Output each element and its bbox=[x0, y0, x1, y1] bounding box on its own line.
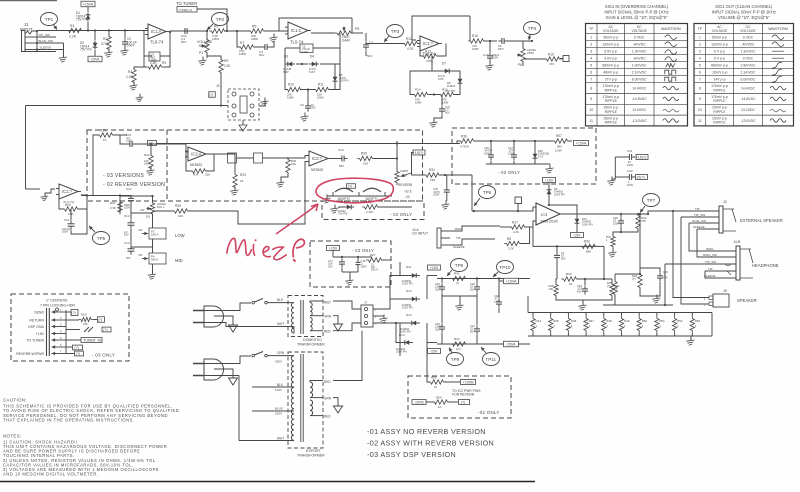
svg-text:1/8W: 1/8W bbox=[212, 37, 219, 41]
svg-text:+15V: +15V bbox=[36, 332, 45, 336]
svg-text:1" CENTERS: 1" CENTERS bbox=[46, 299, 68, 303]
svg-text:3: 3 bbox=[590, 50, 592, 54]
svg-text:TIP: TIP bbox=[695, 207, 700, 211]
svg-text:R41: R41 bbox=[454, 272, 460, 276]
svg-text:+15V: +15V bbox=[545, 178, 554, 182]
svg-text:4T8: 4T8 bbox=[641, 219, 646, 223]
svg-text:TIP: TIP bbox=[708, 267, 713, 271]
svg-text:+15VB: +15VB bbox=[463, 380, 474, 384]
svg-text:100V: 100V bbox=[627, 163, 633, 167]
svg-text:SIG1 OUT (CLEAN CHANNEL): SIG1 OUT (CLEAN CHANNEL) bbox=[715, 4, 773, 9]
svg-text:50V: 50V bbox=[259, 53, 264, 57]
svg-text:46mV p-p: 46mV p-p bbox=[603, 71, 618, 75]
svg-text:R5: R5 bbox=[214, 25, 218, 29]
svg-text:10: 10 bbox=[438, 405, 442, 409]
svg-text:R33: R33 bbox=[566, 272, 572, 276]
svg-text:TP3: TP3 bbox=[391, 29, 400, 34]
svg-text:NOTES:: NOTES: bbox=[3, 434, 22, 439]
svg-text:75V PIV: 75V PIV bbox=[80, 48, 93, 52]
svg-text:35V: 35V bbox=[311, 106, 316, 110]
svg-text:6: 6 bbox=[590, 71, 592, 75]
svg-text:4.0V p-p: 4.0V p-p bbox=[604, 57, 617, 61]
svg-text:R54: R54 bbox=[436, 396, 442, 400]
svg-text:(?): (?) bbox=[74, 346, 78, 350]
svg-text:IC2:?: IC2:? bbox=[312, 156, 323, 161]
svg-text:2: 2 bbox=[590, 43, 592, 47]
svg-text:(?): (?) bbox=[71, 311, 75, 315]
svg-text:2.2K: 2.2K bbox=[508, 247, 514, 251]
svg-text:TUNER_IN: TUNER_IN bbox=[179, 8, 192, 12]
svg-text:1(?): 1(?) bbox=[456, 347, 461, 351]
svg-text:IC1:?: IC1:? bbox=[423, 41, 434, 46]
svg-text:110V: 110V bbox=[275, 388, 282, 392]
svg-text:R6: R6 bbox=[507, 237, 511, 241]
svg-text:J4-B: J4-B bbox=[733, 240, 741, 244]
svg-text:250K: 250K bbox=[527, 51, 534, 55]
svg-text:(?): (?) bbox=[461, 400, 465, 404]
svg-text:GAIN & LEVEL @ "10", EQ's@"5": GAIN & LEVEL @ "10", EQ's@"5" bbox=[606, 15, 668, 20]
svg-text:16: 16 bbox=[240, 179, 244, 183]
svg-text:EXPORT: EXPORT bbox=[306, 449, 322, 453]
svg-text:LOW: LOW bbox=[175, 233, 185, 238]
svg-text:-01 ASSY NO REVERB VERSION: -01 ASSY NO REVERB VERSION bbox=[367, 427, 486, 436]
svg-text:RIPPLE: RIPPLE bbox=[713, 99, 726, 103]
svg-text:50V: 50V bbox=[561, 256, 566, 260]
svg-text:VOLTAGE: VOLTAGE bbox=[740, 29, 756, 33]
svg-text:R42: R42 bbox=[454, 337, 460, 341]
svg-text:1.5K: 1.5K bbox=[126, 75, 134, 79]
svg-text:RED: RED bbox=[324, 415, 331, 419]
svg-text:FOR REVERB: FOR REVERB bbox=[452, 393, 475, 397]
svg-text:TIP: TIP bbox=[456, 236, 461, 240]
svg-text:1N914: 1N914 bbox=[447, 84, 456, 88]
svg-text:1K: 1K bbox=[103, 138, 107, 142]
svg-text:HEADPHONE: HEADPHONE bbox=[752, 263, 779, 268]
svg-text:200V: 200V bbox=[127, 44, 135, 48]
svg-text:C14: C14 bbox=[124, 241, 130, 245]
svg-text:R24: R24 bbox=[193, 173, 199, 177]
svg-text:REVERB W/PWR: REVERB W/PWR bbox=[16, 352, 44, 356]
svg-text:TO TUNER: TO TUNER bbox=[26, 339, 44, 343]
svg-text:100V PIV: 100V PIV bbox=[554, 192, 565, 196]
svg-text:1/8W: 1/8W bbox=[415, 100, 422, 104]
svg-text:CW: CW bbox=[140, 208, 145, 212]
svg-text:R25: R25 bbox=[100, 129, 106, 133]
svg-text:5: 5 bbox=[699, 64, 701, 68]
svg-text:100V: 100V bbox=[361, 264, 367, 268]
svg-text:SLEEVE: SLEEVE bbox=[40, 46, 52, 50]
svg-text:VOLTAGE: VOLTAGE bbox=[712, 29, 728, 33]
svg-text:TP9: TP9 bbox=[451, 357, 460, 362]
svg-text:4.7K: 4.7K bbox=[407, 47, 414, 51]
svg-text:- 03 ONLY: - 03 ONLY bbox=[390, 212, 412, 217]
svg-text:25V: 25V bbox=[328, 264, 333, 268]
svg-text:INPUT SIGNAL 50mV P-P @ 1KHz: INPUT SIGNAL 50mV P-P @ 1KHz bbox=[712, 10, 776, 15]
svg-text:100V: 100V bbox=[275, 412, 282, 416]
svg-text:14V p-p: 14V p-p bbox=[713, 78, 725, 82]
svg-text:TO TUNER: TO TUNER bbox=[176, 1, 197, 6]
svg-text:6.8V: 6.8V bbox=[438, 77, 444, 81]
svg-text:SEND: SEND bbox=[34, 311, 44, 315]
svg-text:RING_SW: RING_SW bbox=[703, 253, 717, 257]
svg-text:230V: 230V bbox=[275, 360, 282, 364]
svg-text:R12: R12 bbox=[406, 37, 412, 41]
svg-text:R15: R15 bbox=[442, 88, 448, 92]
svg-text:4: 4 bbox=[590, 57, 592, 61]
svg-text:R52: R52 bbox=[677, 319, 683, 323]
svg-text:J3: J3 bbox=[216, 84, 220, 88]
svg-text:+15(?): +15(?) bbox=[413, 151, 424, 155]
svg-text:50mV p-p: 50mV p-p bbox=[603, 36, 618, 40]
svg-text:75V PIV: 75V PIV bbox=[76, 18, 89, 22]
svg-text:CW: CW bbox=[138, 253, 143, 257]
svg-text:C10: C10 bbox=[483, 53, 489, 57]
svg-text:NPV: NPV bbox=[498, 47, 504, 51]
svg-text:RIPPLE: RIPPLE bbox=[605, 121, 618, 125]
svg-text:75V PIV: 75V PIV bbox=[338, 212, 348, 216]
svg-text:13.0VDC: 13.0VDC bbox=[632, 108, 646, 112]
svg-text:R10: R10 bbox=[288, 83, 294, 87]
svg-text:1: 1 bbox=[699, 36, 701, 40]
svg-text:R53: R53 bbox=[695, 319, 701, 323]
svg-text:RETURN: RETURN bbox=[29, 319, 44, 323]
svg-text:120mV p-p: 120mV p-p bbox=[711, 43, 728, 47]
svg-text:R36: R36 bbox=[461, 135, 467, 139]
svg-text:BLUE: BLUE bbox=[275, 407, 283, 411]
svg-text:R51: R51 bbox=[659, 319, 665, 323]
svg-text:J2: J2 bbox=[723, 200, 727, 204]
svg-text:TP7: TP7 bbox=[647, 198, 656, 203]
svg-text:1/8W: 1/8W bbox=[317, 95, 324, 99]
svg-text:2.2K: 2.2K bbox=[69, 35, 77, 39]
svg-text:R9: R9 bbox=[224, 59, 228, 63]
svg-text:- 02 REVERB VERSION: - 02 REVERB VERSION bbox=[103, 182, 165, 188]
svg-text:TUNER_IN: TUNER_IN bbox=[83, 338, 101, 342]
svg-text:R50: R50 bbox=[642, 319, 648, 323]
svg-text:1: 1 bbox=[590, 36, 592, 40]
svg-text:150 PIV: 150 PIV bbox=[339, 79, 349, 83]
svg-text:10K: 10K bbox=[178, 214, 183, 218]
svg-text:100V: 100V bbox=[126, 139, 133, 143]
svg-text:P2: P2 bbox=[146, 215, 150, 219]
svg-text:-15V: -15V bbox=[573, 233, 581, 237]
svg-text:9: 9 bbox=[699, 97, 701, 101]
svg-text:SPEAKER: SPEAKER bbox=[737, 298, 757, 303]
svg-text:TP1: TP1 bbox=[45, 17, 54, 22]
svg-text:TP5: TP5 bbox=[97, 236, 106, 241]
svg-text:RED: RED bbox=[324, 330, 331, 334]
svg-text:(?): (?) bbox=[632, 277, 635, 281]
svg-text:6.5V p-p: 6.5V p-p bbox=[604, 50, 617, 54]
svg-text:R57: R57 bbox=[556, 134, 562, 138]
svg-text:TP11: TP11 bbox=[485, 357, 496, 362]
svg-text:BLUE_SW: BLUE_SW bbox=[39, 39, 54, 43]
svg-text:R6: R6 bbox=[252, 25, 256, 29]
svg-text:14.4VDC: 14.4VDC bbox=[741, 86, 755, 90]
svg-text:D11: D11 bbox=[406, 265, 412, 269]
svg-text:100V PIV: 100V PIV bbox=[402, 282, 413, 286]
svg-text:+15V: +15V bbox=[430, 266, 439, 270]
svg-text:GAIN: GAIN bbox=[342, 38, 350, 42]
svg-text:R32: R32 bbox=[584, 240, 590, 244]
svg-text:RIPPLE: RIPPLE bbox=[605, 99, 618, 103]
svg-text:22K: 22K bbox=[205, 173, 210, 177]
svg-text:SLVE_SW: SLVE_SW bbox=[692, 219, 706, 223]
svg-text:CWRT: CWRT bbox=[400, 169, 409, 173]
svg-text:R21: R21 bbox=[110, 201, 116, 205]
svg-text:WHT: WHT bbox=[277, 322, 284, 326]
svg-text:+15VA: +15VA bbox=[83, 2, 94, 6]
svg-text:5.1V: 5.1V bbox=[538, 154, 544, 158]
svg-text:-14.8VDC: -14.8VDC bbox=[632, 97, 648, 101]
svg-text:D7: D7 bbox=[442, 62, 446, 66]
svg-text:120mV p-p: 120mV p-p bbox=[602, 43, 619, 47]
svg-text:RIPPLE: RIPPLE bbox=[713, 110, 726, 114]
svg-text:100V PIV: 100V PIV bbox=[396, 350, 407, 354]
svg-text:TIP_SW: TIP_SW bbox=[694, 213, 705, 217]
svg-text:6: 6 bbox=[699, 71, 701, 75]
svg-text:R2: R2 bbox=[103, 37, 107, 41]
svg-text:P6: P6 bbox=[518, 63, 522, 67]
svg-text:-15V: -15V bbox=[430, 349, 438, 353]
svg-text:GRN: GRN bbox=[277, 351, 285, 355]
svg-text:R46: R46 bbox=[571, 319, 577, 323]
svg-text:BLK: BLK bbox=[277, 383, 284, 387]
svg-text:3: 3 bbox=[699, 50, 701, 54]
svg-text:J5: J5 bbox=[723, 289, 727, 293]
svg-text:8: 8 bbox=[699, 86, 701, 90]
svg-text:+15(?): +15(?) bbox=[636, 155, 647, 159]
svg-text:R22: R22 bbox=[144, 153, 150, 157]
svg-text:WAVEFORM: WAVEFORM bbox=[768, 27, 788, 31]
svg-text:SIG1 IN (OVERDRIVE CHANNEL): SIG1 IN (OVERDRIVE CHANNEL) bbox=[605, 4, 669, 9]
svg-text:68K: 68K bbox=[586, 250, 591, 254]
svg-text:VOLUME @ "10", EQ's@"5": VOLUME @ "10", EQ's@"5" bbox=[718, 15, 770, 20]
svg-text:DSP GND: DSP GND bbox=[28, 325, 44, 329]
svg-text:50K A: 50K A bbox=[199, 44, 209, 48]
svg-text:50V: 50V bbox=[445, 110, 450, 114]
svg-text:TP: TP bbox=[698, 27, 703, 31]
svg-text:2.2K: 2.2K bbox=[513, 230, 519, 234]
svg-text:-14.8VDC: -14.8VDC bbox=[740, 97, 756, 101]
svg-text:IC2:A: IC2:A bbox=[191, 152, 202, 157]
svg-text:C12: C12 bbox=[126, 187, 132, 191]
svg-text:3.3V: 3.3V bbox=[283, 70, 289, 74]
svg-text:1/8W: 1/8W bbox=[472, 47, 479, 51]
svg-text:-15(?): -15(?) bbox=[635, 175, 645, 179]
svg-text:R44: R44 bbox=[536, 319, 542, 323]
svg-text:C22: C22 bbox=[627, 169, 633, 173]
svg-text:IC1:?: IC1:? bbox=[62, 189, 73, 194]
svg-text:-15VA: -15VA bbox=[90, 57, 100, 61]
svg-text:2.1mVDC: 2.1mVDC bbox=[741, 71, 756, 75]
svg-text:-13.0VDC: -13.0VDC bbox=[740, 119, 756, 123]
svg-text:INPUT SIGNAL 50mV P-P @ 1KHz: INPUT SIGNAL 50mV P-P @ 1KHz bbox=[604, 10, 668, 15]
svg-text:P5: P5 bbox=[355, 27, 359, 31]
svg-text:VOLTAGE: VOLTAGE bbox=[603, 29, 619, 33]
svg-text:RED: RED bbox=[324, 301, 331, 305]
svg-text:R47: R47 bbox=[589, 319, 595, 323]
svg-text:0 V p-p: 0 V p-p bbox=[714, 50, 725, 54]
svg-text:10: 10 bbox=[589, 108, 593, 112]
svg-text:SLEEVE: SLEEVE bbox=[453, 245, 465, 249]
svg-text:- 03: - 03 bbox=[404, 195, 410, 199]
svg-text:VOLTAGE: VOLTAGE bbox=[631, 29, 647, 33]
svg-text:BLK: BLK bbox=[277, 298, 284, 302]
svg-text:(?): (?) bbox=[76, 352, 80, 356]
svg-text:10K: 10K bbox=[83, 322, 88, 326]
svg-text:1/8W: 1/8W bbox=[251, 37, 258, 41]
svg-text:TL0-74: TL0-74 bbox=[150, 40, 164, 45]
svg-text:1/8W: 1/8W bbox=[442, 100, 449, 104]
svg-text:.20mV p-p: .20mV p-p bbox=[712, 71, 728, 75]
svg-text:R45: R45 bbox=[553, 319, 559, 323]
svg-text:D12: D12 bbox=[406, 289, 412, 293]
svg-text:9: 9 bbox=[590, 97, 592, 101]
svg-text:RIPPLE: RIPPLE bbox=[605, 88, 618, 92]
svg-text:TRANSFORMER: TRANSFORMER bbox=[297, 454, 325, 458]
svg-text:6.0mVDC: 6.0mVDC bbox=[741, 78, 756, 82]
svg-text:R23: R23 bbox=[240, 173, 246, 177]
svg-text:(?): (?) bbox=[456, 281, 459, 285]
svg-text:100V: 100V bbox=[508, 151, 514, 155]
svg-text:EXTERNAL SPEAKER: EXTERNAL SPEAKER bbox=[740, 218, 783, 223]
svg-text:GRN: GRN bbox=[324, 397, 332, 401]
svg-text:C19: C19 bbox=[338, 148, 344, 152]
svg-text:R4: R4 bbox=[128, 70, 132, 74]
svg-text:TP10: TP10 bbox=[499, 265, 510, 270]
svg-text:2.2K: 2.2K bbox=[224, 64, 231, 68]
svg-text:R1: R1 bbox=[70, 24, 75, 28]
svg-text:63V: 63V bbox=[577, 289, 582, 293]
svg-text:R27: R27 bbox=[370, 253, 376, 257]
svg-text:RIPPLE: RIPPLE bbox=[713, 121, 726, 125]
svg-text:R20: R20 bbox=[65, 203, 71, 207]
svg-text:2.1mVDC: 2.1mVDC bbox=[632, 71, 647, 75]
svg-text:5: 5 bbox=[590, 64, 592, 68]
svg-text:R14: R14 bbox=[415, 88, 421, 92]
svg-text:-13.0VDC: -13.0VDC bbox=[632, 119, 648, 123]
svg-text:50V: 50V bbox=[181, 40, 186, 44]
svg-text:IC1:C: IC1:C bbox=[291, 28, 302, 33]
svg-text:2.21K: 2.21K bbox=[366, 210, 373, 214]
svg-text:1K: 1K bbox=[569, 282, 573, 286]
svg-text:11: 11 bbox=[589, 119, 593, 123]
svg-text:IC1:A: IC1:A bbox=[151, 29, 162, 34]
svg-text:R17: R17 bbox=[512, 221, 518, 225]
svg-text:RED: RED bbox=[324, 380, 331, 384]
svg-text:8: 8 bbox=[590, 86, 592, 90]
svg-text:DOMESTIC: DOMESTIC bbox=[303, 338, 322, 342]
svg-text:10: 10 bbox=[698, 108, 702, 112]
svg-text:-03 ASSY DSP VERSION: -03 ASSY DSP VERSION bbox=[367, 450, 456, 459]
svg-text:47K: 47K bbox=[549, 62, 554, 66]
svg-text:11: 11 bbox=[698, 119, 702, 123]
svg-text:-02 ASSY WITH REVERB VERSIO: -02 ASSY WITH REVERB VERSION bbox=[367, 439, 494, 448]
svg-text:J7: J7 bbox=[364, 301, 368, 305]
svg-text:NE5532: NE5532 bbox=[190, 163, 202, 167]
svg-text:RING: RING bbox=[706, 247, 714, 251]
svg-text:TP4: TP4 bbox=[528, 26, 537, 31]
svg-text:1/2W: 1/2W bbox=[555, 149, 562, 153]
svg-text:0 VDC: 0 VDC bbox=[743, 36, 754, 40]
svg-text:- 03 VERSIONS: - 03 VERSIONS bbox=[103, 173, 144, 179]
svg-text:14.4VDC: 14.4VDC bbox=[632, 86, 646, 90]
svg-text:R13: R13 bbox=[425, 50, 431, 54]
svg-text:50V: 50V bbox=[470, 329, 475, 333]
svg-text:- 03 ONLY: - 03 ONLY bbox=[92, 353, 115, 358]
svg-text:50V: 50V bbox=[126, 256, 131, 260]
svg-text:D4: D4 bbox=[310, 55, 314, 59]
svg-text:1/8W: 1/8W bbox=[144, 162, 151, 166]
svg-text:1.3mVDC: 1.3mVDC bbox=[632, 50, 647, 54]
svg-text:D3: D3 bbox=[284, 55, 288, 59]
svg-text:100: 100 bbox=[363, 162, 368, 166]
svg-text:.4mVDC: .4mVDC bbox=[633, 43, 647, 47]
svg-text:100V PIV: 100V PIV bbox=[402, 306, 413, 310]
svg-text:1.0mVDC: 1.0mVDC bbox=[632, 64, 647, 68]
svg-text:1/8W: 1/8W bbox=[287, 95, 294, 99]
svg-text:50V: 50V bbox=[470, 287, 475, 291]
svg-text:10K A: 10K A bbox=[151, 232, 159, 236]
svg-text:100V: 100V bbox=[302, 50, 308, 54]
svg-text:-02 &: -02 & bbox=[404, 190, 412, 194]
svg-text:R49: R49 bbox=[624, 319, 630, 323]
svg-text:R16: R16 bbox=[472, 34, 478, 38]
svg-text:50V: 50V bbox=[367, 54, 372, 58]
svg-text:.4mVDC: .4mVDC bbox=[633, 57, 647, 61]
svg-text:68V: 68V bbox=[339, 164, 344, 168]
svg-text:TP6: TP6 bbox=[483, 190, 492, 195]
svg-text:200V: 200V bbox=[62, 230, 68, 234]
svg-text:C7: C7 bbox=[369, 41, 373, 45]
svg-text:THAT EXPLAINED IN THE OPERATIN: THAT EXPLAINED IN THE OPERATING INSTRUCT… bbox=[3, 418, 135, 423]
svg-text:CAUTION:: CAUTION: bbox=[3, 398, 27, 403]
svg-text:100V: 100V bbox=[494, 299, 500, 303]
svg-text:-02 ONLY: -02 ONLY bbox=[478, 410, 500, 415]
svg-text:(?): (?) bbox=[103, 328, 107, 332]
svg-text:WHT: WHT bbox=[277, 437, 284, 441]
svg-text:0 V p-p: 0 V p-p bbox=[714, 57, 725, 61]
svg-text:P1: P1 bbox=[199, 51, 203, 55]
svg-text:660mV p-p: 660mV p-p bbox=[711, 64, 728, 68]
svg-text:10K L: 10K L bbox=[157, 205, 165, 209]
svg-text:AND 10 MEGOHM DIGITAL VOLTMETE: AND 10 MEGOHM DIGITAL VOLTMETER. bbox=[3, 472, 99, 477]
svg-text:+15VA: +15VA bbox=[576, 141, 587, 145]
svg-text:100V PIV: 100V PIV bbox=[582, 222, 593, 226]
svg-text:RIPPLE: RIPPLE bbox=[605, 110, 618, 114]
svg-text:(?): (?) bbox=[98, 318, 102, 322]
svg-text:100V: 100V bbox=[613, 221, 619, 225]
svg-text:TIP_SW: TIP_SW bbox=[705, 260, 716, 264]
svg-text:25V: 25V bbox=[435, 327, 440, 331]
svg-text:D13: D13 bbox=[406, 313, 412, 317]
svg-text:10: 10 bbox=[434, 385, 438, 389]
svg-text:TDA 2030: TDA 2030 bbox=[540, 219, 559, 224]
svg-text:27V p-p: 27V p-p bbox=[605, 78, 617, 82]
svg-text:WAVEFORM: WAVEFORM bbox=[661, 27, 681, 31]
svg-text:100V: 100V bbox=[124, 206, 130, 210]
svg-text:2.2K: 2.2K bbox=[150, 61, 157, 65]
svg-text:SLEEVE: SLEEVE bbox=[693, 225, 705, 229]
svg-text:7 PIN LOCKING HDR: 7 PIN LOCKING HDR bbox=[40, 304, 75, 308]
svg-text:TP2: TP2 bbox=[216, 17, 225, 22]
svg-text:(?): (?) bbox=[607, 284, 610, 288]
svg-text:IC3: IC3 bbox=[541, 212, 548, 217]
svg-text:100V: 100V bbox=[627, 183, 633, 187]
svg-text:2: 2 bbox=[699, 43, 701, 47]
svg-text:6.8V: 6.8V bbox=[309, 70, 315, 74]
